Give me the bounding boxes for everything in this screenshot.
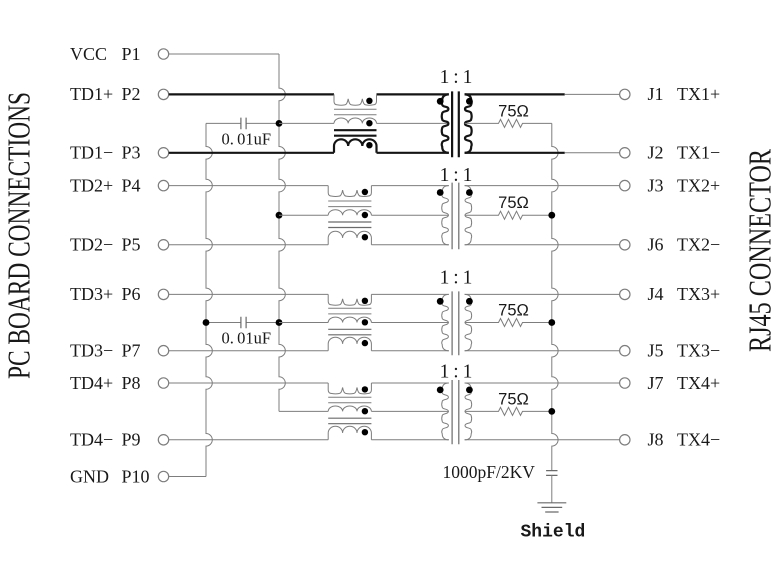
wire choke L1 bottom to transformer T1 primary <box>377 152 449 154</box>
choke L3 bottom winding <box>328 337 371 351</box>
svg-text:1:1: 1:1 <box>440 267 473 288</box>
svg-text:1:1: 1:1 <box>440 362 473 383</box>
transformer T2 secondary winding <box>465 186 472 245</box>
wire transformer T1 secondary bottom to J2 <box>465 152 565 154</box>
terminal J7 <box>620 378 630 388</box>
wire left rail (cap bus to P10) <box>206 123 212 476</box>
wire P8 to choke L4 top <box>169 382 329 384</box>
choke L1 bottom polarity dot <box>366 142 372 148</box>
svg-text:P5: P5 <box>122 235 141 255</box>
svg-text:1:1: 1:1 <box>440 67 473 88</box>
terminal J8 <box>620 435 630 445</box>
terminal J1 <box>620 89 630 99</box>
transformer T3 core <box>452 291 459 355</box>
svg-text:1000pF/2KV: 1000pF/2KV <box>443 462 536 482</box>
wire transformer T1 secondary top to J1 <box>465 93 565 95</box>
node centre-tap junction T2 on VCC rail <box>276 212 283 219</box>
wire choke L4 bottom to transformer T4 primary <box>371 439 448 441</box>
transformer T3 primary polarity dot <box>437 298 444 305</box>
node resistor R4 junction on termination rail <box>548 408 555 415</box>
svg-text:P6: P6 <box>122 284 141 304</box>
choke L1 core <box>334 109 377 115</box>
svg-text:0. 01uF: 0. 01uF <box>221 129 271 148</box>
choke L4 bottom polarity dot <box>362 429 368 435</box>
terminal J3 <box>620 180 630 190</box>
wire choke L1 top to transformer T1 primary <box>377 93 449 95</box>
svg-text:TX1+: TX1+ <box>677 84 720 104</box>
node resistor R3 junction on termination rail <box>548 319 555 326</box>
terminal P6 <box>158 289 168 299</box>
wire transformer T3 secondary bottom to J5 <box>465 350 620 352</box>
choke L4 bottom winding <box>328 426 371 439</box>
svg-text:GND: GND <box>70 466 109 486</box>
wire choke L2 top to transformer T2 primary <box>371 185 448 187</box>
wire centre-tap to choke L1 middle <box>279 122 334 124</box>
wire choke L1 middle to transformer T1 primary centre <box>377 122 449 124</box>
wire P4 to choke L2 top <box>169 185 329 187</box>
node centre-tap junction on VCC rail <box>276 120 283 127</box>
svg-text:J5: J5 <box>648 341 664 361</box>
svg-text:J4: J4 <box>648 284 664 304</box>
terminal J5 <box>620 346 630 356</box>
wire centre-tap to choke L2 middle <box>279 214 328 216</box>
choke L2 core <box>328 201 371 207</box>
choke L3 top polarity dot <box>362 298 368 304</box>
transformer T3 secondary winding <box>465 294 472 350</box>
svg-text:VCC: VCC <box>70 44 107 64</box>
svg-text:TD1−: TD1− <box>70 143 113 163</box>
transformer T1 secondary polarity dot <box>466 98 473 105</box>
choke L2 top winding <box>328 186 371 197</box>
wire choke L2 bottom to transformer T2 primary <box>371 244 448 246</box>
choke L4 top polarity dot <box>362 386 368 392</box>
terminal P5 <box>158 240 168 250</box>
wire choke L3 top to transformer T3 primary <box>371 293 448 295</box>
node junction on left rail <box>203 319 210 326</box>
terminal J2 <box>620 148 630 158</box>
choke L1 middle polarity dot <box>366 120 372 126</box>
svg-text:P3: P3 <box>122 143 141 163</box>
svg-text:P8: P8 <box>122 373 141 393</box>
terminal P9 <box>158 435 168 445</box>
choke L3 middle winding <box>328 317 371 322</box>
wire P6 to choke L3 top <box>169 293 329 295</box>
svg-text:TX3+: TX3+ <box>677 284 720 304</box>
choke L2 middle polarity dot <box>362 212 368 218</box>
transformer T4 core <box>452 380 459 444</box>
capacitor C1 0.01uF <box>206 118 279 149</box>
choke L4 middle polarity dot <box>362 408 368 414</box>
transformer T4 primary winding <box>442 383 449 440</box>
resistor R1 75ohm <box>465 102 552 127</box>
choke L1 top polarity dot <box>366 98 372 104</box>
wire choke L4 top to transformer T4 primary <box>371 382 448 384</box>
choke L2 bottom polarity dot <box>362 234 368 240</box>
wire P7 to choke L3 bottom <box>169 350 329 352</box>
terminal P1 <box>158 49 168 59</box>
transformer T3 primary winding <box>442 294 449 350</box>
wire transformer T2 secondary top to J3 <box>465 185 620 187</box>
wire P9 to choke L4 bottom <box>169 439 329 441</box>
choke L1 middle winding <box>334 118 377 123</box>
svg-text:TX4−: TX4− <box>677 430 720 450</box>
wire VCC P1 to vertical rail <box>169 53 279 55</box>
svg-text:P9: P9 <box>122 430 141 450</box>
wire P5 to choke L2 bottom <box>169 244 329 246</box>
choke L4 top winding <box>328 383 371 394</box>
node resistor R2 junction on termination rail <box>548 212 555 219</box>
svg-text:Shield: Shield <box>521 522 586 542</box>
terminal P7 <box>158 346 168 356</box>
svg-text:TX4+: TX4+ <box>677 373 720 393</box>
svg-text:0. 01uF: 0. 01uF <box>221 329 271 348</box>
transformer T3 secondary polarity dot <box>466 298 473 305</box>
choke L3 bottom polarity dot <box>362 340 368 346</box>
choke L2 middle winding <box>328 210 371 215</box>
wire choke L3 bottom to transformer T3 primary <box>371 350 448 352</box>
transformer T1 secondary winding <box>465 94 472 152</box>
choke L1 bottom winding <box>334 139 377 153</box>
wire transformer T4 secondary top to J7 <box>465 382 620 384</box>
transformer T2 primary polarity dot <box>437 189 444 196</box>
capacitor C2 0.01uF <box>206 317 279 348</box>
svg-text:TX2−: TX2− <box>677 235 720 255</box>
wire choke L3 middle to transformer T3 primary centre <box>371 322 448 324</box>
choke L4 core <box>328 397 371 403</box>
wire transformer T4 secondary bottom to J8 <box>465 439 620 441</box>
wire transformer T2 secondary bottom to J6 <box>465 244 620 246</box>
choke L2 top polarity dot <box>362 189 368 195</box>
svg-text:75Ω: 75Ω <box>498 302 529 320</box>
wire centre-tap to choke L3 middle <box>279 322 328 324</box>
svg-text:J3: J3 <box>648 175 664 195</box>
svg-text:PC BOARD CONNECTIONS: PC BOARD CONNECTIONS <box>1 92 37 379</box>
svg-text:TX1−: TX1− <box>677 143 720 163</box>
capacitor C3 1000pF/2KV <box>443 462 558 503</box>
transformer T4 primary polarity dot <box>437 387 444 394</box>
wire choke L2 middle to transformer T2 primary centre <box>371 214 448 216</box>
terminal P4 <box>158 180 168 190</box>
svg-text:75Ω: 75Ω <box>498 390 529 408</box>
wire GND P10 to left rail <box>169 476 206 478</box>
terminal J6 <box>620 240 630 250</box>
svg-text:J1: J1 <box>648 84 664 104</box>
wire P2 to choke L1 top <box>169 93 334 95</box>
svg-text:P1: P1 <box>122 44 141 64</box>
transformer T1 primary polarity dot <box>437 98 444 105</box>
choke L3 middle polarity dot <box>362 319 368 325</box>
transformer T2 core <box>452 183 459 250</box>
svg-text:75Ω: 75Ω <box>498 194 529 212</box>
svg-text:P2: P2 <box>122 84 141 104</box>
svg-text:TD4−: TD4− <box>70 430 113 450</box>
svg-text:1:1: 1:1 <box>440 165 473 186</box>
transformer T1 primary winding <box>442 94 449 152</box>
svg-text:TD3−: TD3− <box>70 341 113 361</box>
transformer T4 secondary winding <box>465 383 472 440</box>
svg-text:TD3+: TD3+ <box>70 284 113 304</box>
choke L3 top winding <box>328 294 371 305</box>
svg-text:P4: P4 <box>122 175 141 195</box>
terminal P10 <box>158 471 168 481</box>
resistor R3 75ohm <box>465 302 552 327</box>
resistor R4 75ohm <box>465 390 552 415</box>
svg-text:RJ45 CONNECTOR: RJ45 CONNECTOR <box>742 149 774 352</box>
svg-text:P10: P10 <box>122 466 150 486</box>
svg-text:J7: J7 <box>648 373 664 393</box>
svg-text:TD2−: TD2− <box>70 235 113 255</box>
svg-text:TX2+: TX2+ <box>677 175 720 195</box>
wire VCC rail (centre-tap bus) <box>279 54 285 411</box>
svg-text:P7: P7 <box>122 341 141 361</box>
node centre-tap junction on VCC rail <box>276 319 283 326</box>
transformer T4 secondary polarity dot <box>466 387 473 394</box>
svg-text:J6: J6 <box>648 235 664 255</box>
svg-text:TD2+: TD2+ <box>70 175 113 195</box>
wire termination rail to shield capacitor <box>552 123 558 470</box>
choke L4 middle winding <box>328 406 371 411</box>
choke L1 top winding <box>334 94 377 105</box>
terminal P8 <box>158 378 168 388</box>
svg-text:J8: J8 <box>648 430 664 450</box>
wire centre-tap to choke L4 middle <box>279 410 328 412</box>
choke L3 core <box>328 308 371 314</box>
wire transformer T3 secondary top to J4 <box>465 293 620 295</box>
ground (shield earth) <box>521 503 586 543</box>
resistor R2 75ohm <box>465 194 552 219</box>
wire P3 to choke L1 bottom <box>169 152 334 154</box>
terminal P3 <box>158 148 168 158</box>
terminal P2 <box>158 89 168 99</box>
svg-text:TD4+: TD4+ <box>70 373 113 393</box>
terminal J4 <box>620 289 630 299</box>
svg-text:TD1+: TD1+ <box>70 84 113 104</box>
svg-text:75Ω: 75Ω <box>498 102 529 120</box>
svg-text:TX3−: TX3− <box>677 341 720 361</box>
svg-text:J2: J2 <box>648 143 664 163</box>
transformer T1 core <box>452 91 459 157</box>
transformer T2 primary winding <box>442 186 449 245</box>
transformer T2 secondary polarity dot <box>466 189 473 196</box>
wire choke L4 middle to transformer T4 primary centre <box>371 410 448 412</box>
choke L2 bottom winding <box>328 231 371 245</box>
